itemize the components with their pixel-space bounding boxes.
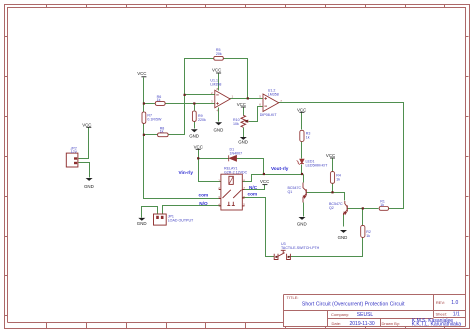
- svg-text:12V: 12V: [71, 150, 78, 154]
- relay switch levers: [223, 190, 242, 198]
- svg-text:220k: 220k: [198, 118, 206, 122]
- svg-text:1k: 1k: [380, 203, 384, 207]
- svg-text:N/O: N/O: [199, 201, 208, 206]
- VCC R4: [330, 157, 335, 159]
- title block box: [284, 295, 466, 327]
- svg-text:1k: 1k: [336, 178, 340, 182]
- wire VCC rail left (sense rail): [144, 78, 221, 199]
- wire U1.1 pin8 VCC: [218, 74, 220, 91]
- connector JP1: [154, 214, 167, 225]
- wire JP2 pin2 gnd: [79, 163, 90, 178]
- wire U1.1 pin2 row: [185, 94, 215, 96]
- svg-text:TITLE:: TITLE:: [287, 295, 299, 300]
- VCC JP2: [86, 126, 91, 128]
- node pin2/R5/R8 junction: [184, 94, 186, 96]
- svg-text:Q1: Q1: [288, 190, 293, 194]
- wire R2 top stub: [362, 209, 364, 226]
- frame column ticks bottom: [47, 323, 445, 329]
- wire vout row: [264, 174, 304, 176]
- node U1.1 out junction: [247, 97, 249, 99]
- svg-text:GND: GND: [338, 235, 348, 240]
- op-amp U1.2: [263, 94, 279, 112]
- VCC R10: [241, 106, 246, 108]
- VCC relay coil: [196, 148, 201, 150]
- node D1/coil/vout junction: [263, 173, 265, 175]
- wire R9 stubs: [194, 104, 196, 129]
- GND JP2: [86, 178, 93, 181]
- svg-text:VCC: VCC: [137, 71, 146, 76]
- LED LED1: [297, 159, 304, 165]
- svg-text:Sheet:: Sheet:: [436, 311, 448, 316]
- VCC R3: [299, 111, 304, 113]
- resistor R9: [192, 111, 196, 121]
- GND R9: [191, 129, 198, 132]
- wire R8 right vertical: [169, 95, 185, 135]
- svg-text:VCC: VCC: [237, 102, 246, 107]
- tactile switch U3: [274, 250, 290, 259]
- node R6/R9/pin3 junction: [193, 102, 195, 104]
- relay bottom contacts: [227, 202, 235, 206]
- wire D1 row: [199, 159, 264, 175]
- svg-text:N/C: N/C: [249, 185, 258, 190]
- svg-text:GND: GND: [137, 221, 147, 226]
- svg-text:1k: 1k: [306, 136, 310, 140]
- svg-text:Vin-rly: Vin-rly: [179, 170, 194, 175]
- svg-text:VCC: VCC: [82, 122, 91, 127]
- relay pin stubs right: [242, 190, 244, 206]
- transistor Q1: [305, 189, 307, 195]
- svg-text:10k: 10k: [233, 122, 239, 126]
- resistor R6: [155, 102, 165, 106]
- VCC rail left: [141, 76, 146, 78]
- GND R10: [240, 137, 247, 140]
- relay RELAY1 box: [219, 174, 245, 210]
- wire R10 stubs: [243, 108, 245, 138]
- svg-text:VCC: VCC: [260, 179, 269, 184]
- potentiometer R10: [241, 115, 248, 127]
- relay pin stubs left: [219, 190, 221, 206]
- svg-text:0.1R/5W: 0.1R/5W: [147, 118, 162, 122]
- svg-text:LED5MM-KIT: LED5MM-KIT: [306, 163, 329, 167]
- svg-text:20k: 20k: [216, 52, 222, 56]
- wire JP1 pin1 to gnd: [142, 207, 158, 218]
- svg-text:REV:: REV:: [436, 300, 445, 305]
- svg-text:DIP08-KIT: DIP08-KIT: [260, 113, 278, 117]
- wire R5 feedback loop top: [185, 59, 248, 99]
- diode D1: [229, 155, 237, 161]
- wire VCC to D1 row: [198, 150, 200, 159]
- GND Q2: [340, 230, 347, 233]
- wire Q1 collector: [303, 175, 305, 183]
- wire relay coil right to vout node: [243, 175, 264, 182]
- GND Q1: [299, 217, 306, 220]
- resistor R4: [330, 172, 334, 184]
- wire JP2 pin1 VCC: [79, 128, 89, 159]
- svg-text:VCC: VCC: [194, 144, 203, 149]
- wire Q2 base: [349, 208, 363, 210]
- resistor R1: [379, 207, 388, 211]
- svg-text:2019-11-30: 2019-11-30: [350, 321, 375, 327]
- wire U1.1 out to U1.2 in+: [230, 98, 263, 100]
- svg-text:TACTILE-SWITCH-PTH: TACTILE-SWITCH-PTH: [281, 246, 320, 250]
- svg-text:Company:: Company:: [331, 312, 349, 317]
- wire VCC to relay NC right: [243, 185, 265, 190]
- svg-text:1/1: 1/1: [453, 311, 460, 317]
- frame row ticks right: [466, 37, 469, 276]
- resistor R5: [214, 56, 224, 60]
- svg-text:GND: GND: [238, 140, 248, 145]
- node rail/R8 junction: [143, 134, 145, 136]
- wire JP1 pin2 N/O row: [163, 206, 221, 215]
- connector JP2: [66, 153, 78, 167]
- svg-text:Drawn By:: Drawn By:: [382, 321, 400, 326]
- svg-text:GND: GND: [84, 184, 94, 189]
- wire Q2 emitter to gnd: [343, 215, 345, 227]
- GND JP1: [138, 218, 145, 221]
- svg-text:GND: GND: [214, 127, 224, 132]
- node R1/R2/Q2 base junction: [362, 207, 364, 209]
- svg-text:VCC: VCC: [212, 67, 221, 72]
- svg-text:LOAD OUTPUT: LOAD OUTPUT: [168, 218, 194, 222]
- transistor Q2: [346, 205, 348, 211]
- wire Q1 base row to R4 junction to Q2 collector: [307, 193, 345, 201]
- wire switch left to relay com right: [243, 198, 275, 257]
- svg-text:Q2: Q2: [329, 206, 334, 210]
- wire U1.1 pin4 gnd: [218, 108, 220, 122]
- svg-text:K.K.T.L. Karunathilaka: K.K.T.L. Karunathilaka: [412, 322, 462, 328]
- svg-text:GND: GND: [189, 134, 199, 139]
- svg-text:Vout-rly: Vout-rly: [271, 166, 289, 171]
- wire R3 to LED: [301, 142, 303, 159]
- node rail/R6 junction: [143, 102, 145, 104]
- svg-text:com: com: [248, 192, 258, 197]
- wire R4 stubs: [332, 159, 334, 193]
- resistor R7 (shunt): [142, 112, 146, 123]
- svg-text:1k: 1k: [157, 98, 161, 102]
- resistor R8: [158, 133, 169, 137]
- svg-text:VCC: VCC: [297, 107, 306, 112]
- svg-text:Short Circuit (Overcurrent) Pr: Short Circuit (Overcurrent) Protection C…: [302, 301, 405, 307]
- GND U1.1: [215, 122, 222, 125]
- svg-text:Date:: Date:: [332, 321, 342, 326]
- wire Q1 emitter to gnd: [303, 203, 305, 217]
- wire U1.2 out loop right: [279, 103, 404, 209]
- wire relay coil left: [199, 159, 221, 182]
- wire R1 left to junction to Q2 base: [348, 208, 379, 210]
- wire U1.2 pin6 feedback to R10 wiper: [249, 107, 263, 122]
- wire R3 VCC stub: [301, 113, 303, 130]
- svg-text:VCC: VCC: [326, 153, 335, 158]
- resistor R3: [300, 130, 304, 141]
- resistor R2: [361, 225, 365, 237]
- svg-text:LM358: LM358: [268, 92, 279, 96]
- wire LED to vout node: [301, 165, 303, 175]
- svg-text:G2R-2 12VDC: G2R-2 12VDC: [224, 170, 248, 174]
- svg-text:GND: GND: [297, 221, 307, 226]
- op-amp U1.1: [215, 90, 230, 108]
- wire R2 bottom to switch: [290, 238, 363, 257]
- svg-text:1k: 1k: [366, 234, 370, 238]
- svg-text:SEUSL: SEUSL: [357, 312, 374, 318]
- node LED/Q1 vout junction: [301, 173, 303, 175]
- node R4/Q1 base junction: [331, 191, 333, 193]
- svg-text:com: com: [199, 193, 209, 198]
- frame row ticks left: [5, 37, 8, 316]
- svg-text:1k: 1k: [160, 130, 164, 134]
- node R10 wiper junction: [246, 120, 248, 122]
- svg-text:1N4007: 1N4007: [230, 151, 243, 155]
- node VCC/D1/coil junction: [197, 157, 199, 159]
- svg-text:1.0: 1.0: [451, 300, 458, 306]
- frame column ticks top: [47, 5, 445, 8]
- VCC U1.1 pin8: [216, 72, 221, 74]
- wire R6 row to U1.1 pin3: [144, 103, 215, 105]
- relay coil: [229, 176, 233, 184]
- VCC relay NC: [262, 184, 267, 186]
- wire R8 row: [144, 134, 158, 136]
